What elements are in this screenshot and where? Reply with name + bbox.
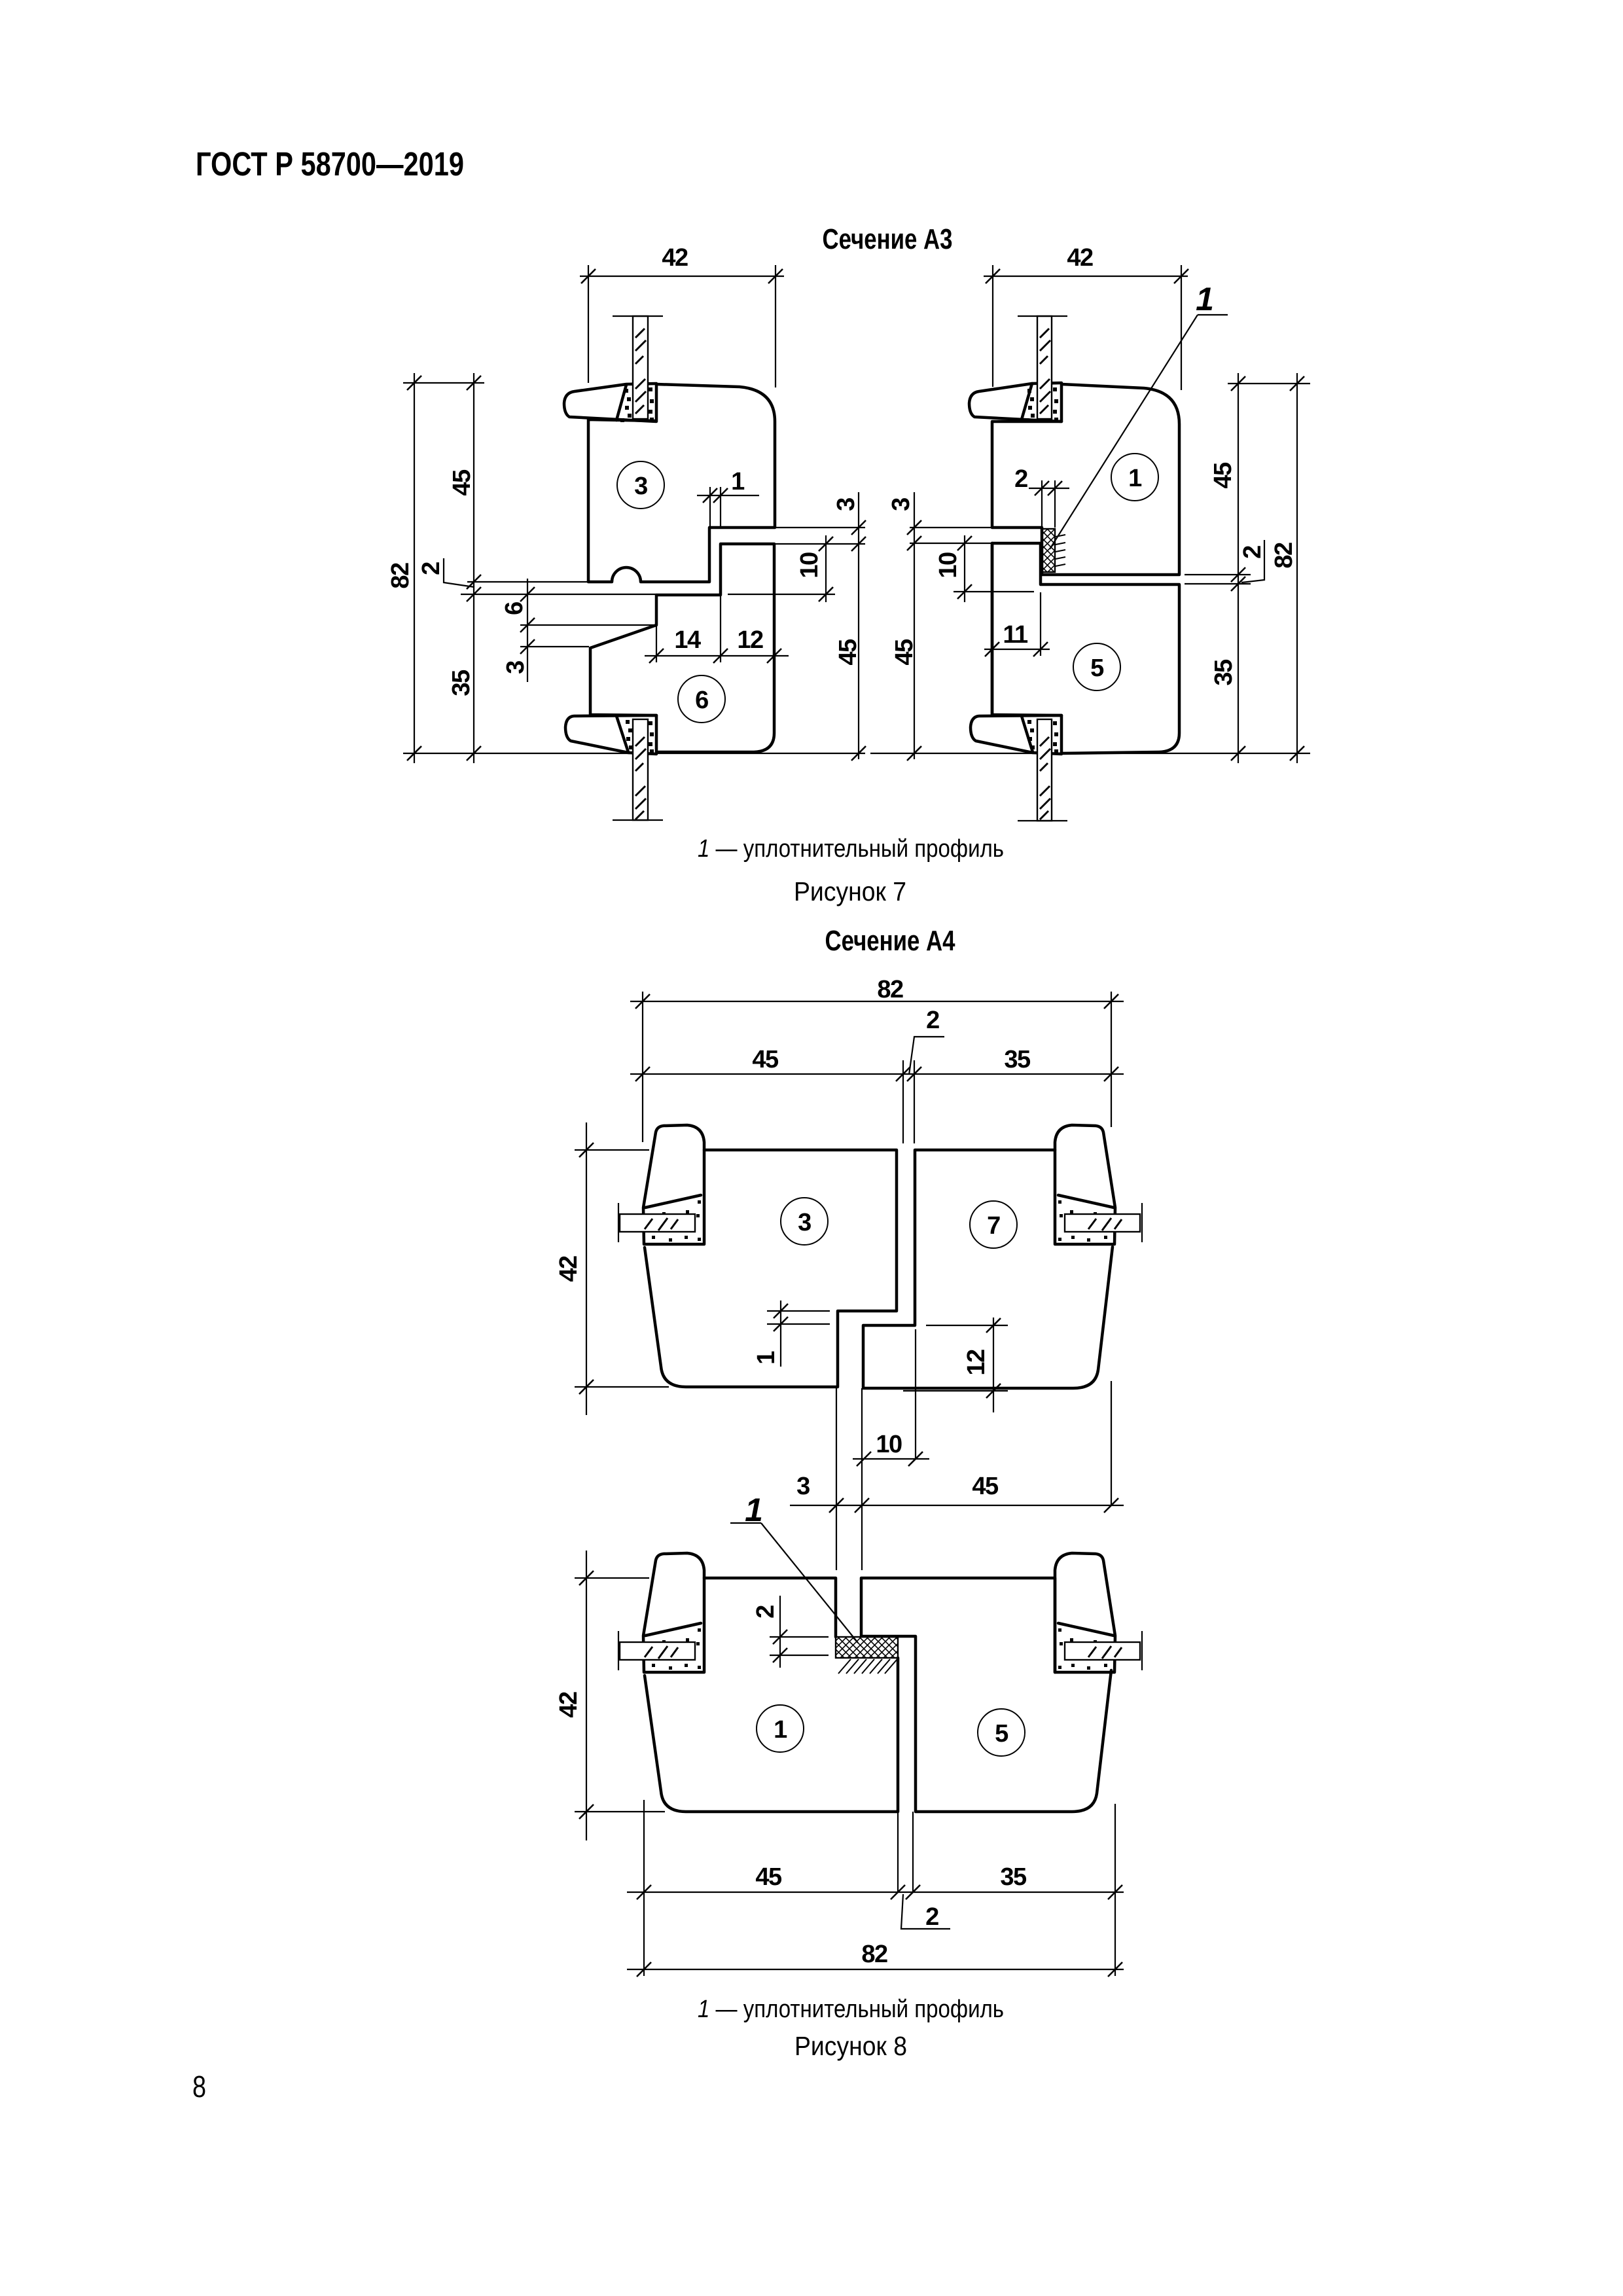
- dimension column left: 82 and 45/2/35: [387, 373, 865, 763]
- dimension 1 (fig8 part 3 step): [753, 1300, 830, 1367]
- svg-text:35: 35: [1004, 1046, 1031, 1073]
- callout circle 1 (fig8): [757, 1705, 804, 1752]
- part 1 profile body: [992, 384, 1179, 575]
- part 5 profile body: [992, 543, 1179, 753]
- dimension 11 (fig7 part 5 tongue): [984, 592, 1050, 656]
- svg-text:14: 14: [674, 626, 701, 654]
- svg-text:2: 2: [1014, 465, 1027, 493]
- svg-text:42: 42: [662, 244, 688, 272]
- callout circle 5 (fig8): [978, 1709, 1025, 1756]
- extension lines between pairs (fig8): [836, 1329, 1111, 1570]
- svg-text:3: 3: [796, 1473, 810, 1500]
- svg-text:3: 3: [887, 498, 915, 511]
- dimension 42 (fig8 top pair, left): [555, 1122, 669, 1415]
- part 5 left edge: [991, 543, 994, 715]
- part 3 profile body (fig8): [645, 1150, 897, 1387]
- svg-text:82: 82: [861, 1941, 887, 1968]
- leader 2 (fig8 bottom gap): [901, 1894, 950, 1931]
- svg-text:82: 82: [1270, 543, 1298, 569]
- svg-text:45: 45: [755, 1863, 782, 1891]
- svg-text:3: 3: [502, 661, 529, 674]
- svg-text:45: 45: [1209, 462, 1237, 489]
- svg-text:12: 12: [963, 1350, 990, 1376]
- dimension 3 / 45 (fig8 middle): [790, 1473, 1124, 1513]
- glass pane bottom (right profile): [1018, 719, 1067, 821]
- dimension 14 / 12 (fig7 part 6): [645, 596, 789, 663]
- callout circle 7 (fig8): [970, 1201, 1017, 1248]
- svg-text:10: 10: [935, 552, 962, 579]
- svg-text:6: 6: [695, 687, 708, 714]
- sealing profile (fig8, crosshatched): [836, 1637, 898, 1674]
- svg-text:Сечение А4: Сечение А4: [825, 925, 955, 957]
- svg-text:2: 2: [418, 562, 445, 575]
- svg-text:1: 1: [1128, 465, 1142, 492]
- svg-text:11: 11: [1003, 621, 1028, 649]
- callout circle 6: [678, 675, 725, 723]
- dimension 42 (fig8 bottom pair, left): [555, 1551, 665, 1840]
- svg-text:2: 2: [926, 1007, 939, 1034]
- glass pane top (right profile): [1018, 316, 1067, 419]
- dimension column middle-left: 3 / 10 / 45: [728, 492, 866, 761]
- glass pane (fig8 part 5, horizontal): [1065, 1631, 1142, 1670]
- part 5 profile body (fig8): [861, 1578, 1111, 1812]
- dimension column middle-right: 3 / 10 / 45: [887, 492, 1034, 761]
- svg-text:45: 45: [752, 1046, 779, 1073]
- svg-text:1 — уплотнительный профиль: 1 — уплотнительный профиль: [698, 835, 1004, 863]
- svg-text:6: 6: [501, 602, 528, 615]
- svg-text:2: 2: [925, 1903, 938, 1931]
- svg-text:1: 1: [731, 468, 745, 495]
- dimension 42 (fig7 right profile top): [984, 244, 1188, 390]
- dimension 82 (fig8 top): [630, 976, 1124, 1142]
- dimension 12 (fig8 part 7 tongue): [903, 1318, 1008, 1412]
- svg-text:3: 3: [798, 1209, 811, 1236]
- svg-text:10: 10: [876, 1431, 902, 1458]
- svg-text:Сечение А3: Сечение А3: [823, 223, 953, 255]
- svg-text:82: 82: [877, 976, 903, 1003]
- glass pane top (left profile): [613, 316, 663, 419]
- dimension 6 / 3 (fig7 left profile left side): [501, 579, 656, 682]
- dimension 1 (fig7 part 3 step): [697, 468, 759, 528]
- dimension column right: 45 / 2 / 35 / 82: [870, 373, 1310, 763]
- glazing bead (fig8 part 7, top-right): [1055, 1125, 1115, 1244]
- glazing bead (fig8 part 5, top-right): [1055, 1553, 1115, 1672]
- glazing bead (fig8 part 3, top-left): [643, 1125, 704, 1244]
- svg-text:45: 45: [448, 469, 476, 496]
- svg-text:1: 1: [1196, 281, 1214, 317]
- glazing bead top-left (part 3): [564, 384, 656, 422]
- svg-text:8: 8: [192, 2070, 206, 2104]
- svg-text:42: 42: [555, 1256, 582, 1282]
- svg-text:1: 1: [753, 1351, 780, 1365]
- svg-text:35: 35: [1000, 1863, 1027, 1891]
- dimension 45 / 35 (fig8 bottom): [627, 1812, 1124, 1899]
- svg-text:45: 45: [972, 1473, 999, 1500]
- glazing bead (fig8 part 1, top-left): [643, 1553, 704, 1672]
- svg-text:45: 45: [834, 639, 862, 666]
- leader 1 (fig8 sealing profile callout): [730, 1492, 858, 1643]
- dimension 2 (fig7 sealing profile width): [1014, 465, 1069, 528]
- dimension 10 (fig8 middle): [853, 1431, 929, 1466]
- svg-text:Рисунок 8: Рисунок 8: [794, 2031, 907, 2061]
- svg-text:35: 35: [448, 670, 475, 696]
- svg-text:5: 5: [995, 1720, 1008, 1748]
- svg-text:1 — уплотнительный профиль: 1 — уплотнительный профиль: [698, 1996, 1004, 2023]
- glazing bead bottom-left (part 6): [565, 715, 656, 754]
- callout circle 3: [617, 461, 664, 509]
- callout circle 1: [1111, 454, 1158, 501]
- part 7 profile body (fig8): [863, 1150, 1113, 1388]
- svg-text:42: 42: [1067, 244, 1093, 272]
- svg-text:2: 2: [1239, 546, 1266, 559]
- svg-text:5: 5: [1090, 655, 1104, 682]
- svg-text:ГОСТ Р 58700—2019: ГОСТ Р 58700—2019: [196, 145, 464, 183]
- leader 2 (fig8 top gap): [909, 1007, 944, 1075]
- callout circle 5: [1073, 643, 1120, 691]
- glazing bead top (right profile, part 1): [969, 383, 1061, 422]
- part 6 profile body: [590, 544, 774, 752]
- glazing bead bottom (right profile, part 5): [971, 715, 1061, 754]
- svg-text:45: 45: [891, 639, 918, 666]
- svg-text:35: 35: [1210, 659, 1238, 686]
- glass pane (fig8 part 1, horizontal): [618, 1631, 695, 1670]
- callout circle 3 (fig8): [781, 1198, 828, 1245]
- sealing profile (part 1 rebate, crosshatched): [1042, 529, 1065, 572]
- dimension 82 (fig8 bottom): [627, 1800, 1124, 1977]
- leader 1 (fig7 sealing profile callout): [1050, 281, 1228, 549]
- svg-text:7: 7: [987, 1212, 1000, 1240]
- svg-text:1: 1: [774, 1716, 787, 1744]
- svg-text:2: 2: [752, 1605, 779, 1619]
- svg-text:3: 3: [832, 498, 860, 511]
- glass pane (fig8 part 3, horizontal): [618, 1203, 695, 1242]
- glass pane (fig8 part 7, horizontal): [1065, 1203, 1142, 1242]
- dimension 45 / 35 (fig8 top): [630, 1046, 1124, 1143]
- part 3 profile body: [588, 384, 775, 582]
- part 1 profile body (fig8): [645, 1578, 898, 1812]
- svg-text:42: 42: [555, 1692, 582, 1718]
- dimension 2 (fig8 sealing profile thickness): [752, 1596, 829, 1668]
- svg-text:10: 10: [796, 552, 823, 579]
- glass pane bottom (left profile): [613, 719, 663, 820]
- dimension 42 (fig7 left profile top): [580, 244, 784, 387]
- svg-text:Рисунок 7: Рисунок 7: [794, 876, 906, 906]
- svg-text:12: 12: [737, 626, 763, 654]
- svg-text:3: 3: [634, 473, 647, 500]
- svg-text:82: 82: [387, 563, 414, 589]
